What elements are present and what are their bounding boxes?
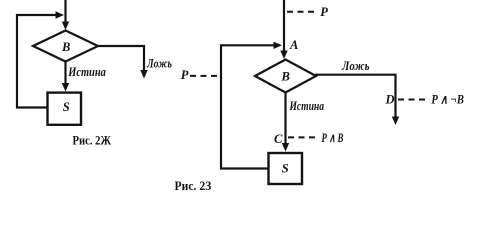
svg-text:P ∧ B: P ∧ B <box>322 131 344 145</box>
svg-text:Истина: Истина <box>289 99 324 113</box>
svg-text:P: P <box>320 5 328 19</box>
svg-text:B: B <box>281 70 290 84</box>
arrowhead: into S box top (left chart) <box>62 83 69 92</box>
svg-text:A: A <box>289 38 298 52</box>
dashed probe wire from C to label P and B <box>288 136 318 138</box>
process box S (right chart) <box>269 153 303 184</box>
arrowhead: left loop-back joining entry wire <box>56 11 65 18</box>
wire: right chart entry vertical through node A into diamond B <box>283 0 285 53</box>
svg-text:D: D <box>385 93 395 107</box>
wire: left chart Ложь branch right then down <box>98 46 145 71</box>
dashed probe wire to label P (top, node above A) <box>287 11 318 13</box>
svg-text:Истина: Истина <box>67 65 105 79</box>
svg-text:C: C <box>274 132 283 146</box>
decision diamond B (right chart) <box>255 60 316 93</box>
wire: left chart diamond bottom to S box (Истина branch) <box>64 62 66 85</box>
arrowhead: into right diamond top <box>280 51 287 60</box>
svg-text:S: S <box>282 162 289 176</box>
arrowhead: left chart Ложь branch down <box>140 70 147 79</box>
svg-text:Ложь: Ложь <box>146 57 172 71</box>
arrowhead: into S box top (right chart) <box>282 143 289 152</box>
svg-text:Ложь: Ложь <box>341 59 370 73</box>
decision diamond B (left chart) <box>33 31 98 62</box>
arrowhead: right loop-back joining at node A <box>274 42 283 49</box>
wire: right chart diamond bottom through node C to S box (Истина branch) <box>284 93 286 145</box>
svg-text:Рис. 2З: Рис. 2З <box>175 178 212 193</box>
wire: right chart Ложь branch right then down to D <box>315 75 396 117</box>
svg-text:P ∧ ¬B: P ∧ ¬B <box>431 93 464 107</box>
wire: left chart loop-back (from S box left, up and right) <box>17 15 56 108</box>
svg-text:Рис. 2Ж: Рис. 2Ж <box>73 133 112 148</box>
svg-text:P: P <box>181 68 189 82</box>
wire: right chart loop-back (from S box left, up to node A) <box>221 45 274 168</box>
arrowhead: right chart Ложь branch down at D <box>392 117 399 126</box>
process box S (left chart) <box>48 93 82 125</box>
svg-text:B: B <box>61 40 70 54</box>
arrowhead: into left diamond top <box>62 22 69 31</box>
svg-text:S: S <box>63 100 70 114</box>
wire: left chart entry vertical into diamond B <box>64 0 66 23</box>
dashed probe wire from label P (left) to loop-back wire <box>190 75 220 77</box>
dashed probe wire from D to label P and-not-B <box>398 99 428 101</box>
